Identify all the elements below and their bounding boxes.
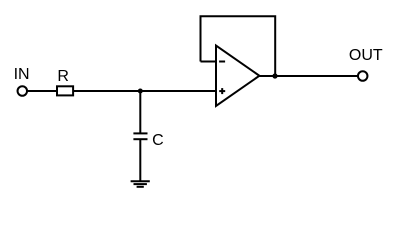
svg-text:C: C — [152, 132, 164, 149]
terminal OUT — [358, 71, 368, 81]
terminal IN — [18, 86, 28, 96]
svg-text:R: R — [57, 68, 69, 85]
wire IN to resistor — [27, 90, 57, 92]
op-amp U1 — [216, 46, 259, 107]
wire feedback loop — [201, 16, 276, 76]
svg-text:OUT: OUT — [349, 47, 383, 64]
node junction dot at R/C — [138, 89, 143, 94]
capacitor C — [133, 133, 147, 139]
op-amp non-inverting input plus sign — [219, 88, 225, 94]
wire capacitor to ground — [139, 140, 141, 182]
node junction dot at output/feedback — [272, 73, 277, 78]
wire inverting input stub — [201, 61, 217, 63]
ground — [131, 181, 150, 187]
resistor R — [57, 86, 73, 95]
svg-text:IN: IN — [14, 66, 30, 83]
wire junction down to capacitor — [139, 91, 141, 133]
wire resistor to op-amp non-inverting input — [73, 90, 216, 92]
op-amp inverting input minus sign — [219, 61, 225, 63]
wire op-amp output to OUT — [259, 75, 357, 77]
